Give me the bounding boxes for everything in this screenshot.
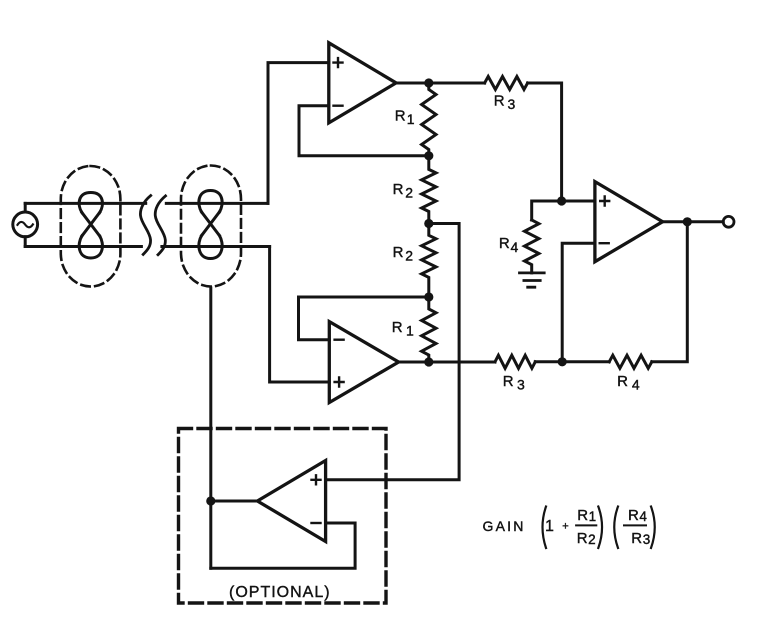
shield oval 2 (dashed) xyxy=(181,166,241,287)
svg-text:R: R xyxy=(393,244,404,261)
svg-text:R: R xyxy=(395,108,406,125)
svg-text:1: 1 xyxy=(545,518,554,535)
cable break marks xyxy=(140,196,165,255)
node R2/R2 midpoint xyxy=(424,219,433,228)
wire U2 output xyxy=(399,361,495,364)
svg-text:R: R xyxy=(503,373,514,390)
resistor R3 (top) xyxy=(485,77,528,90)
output terminal xyxy=(723,216,734,227)
twisted pair 1 xyxy=(79,193,102,259)
svg-text:4: 4 xyxy=(632,377,640,393)
svg-text:R: R xyxy=(628,507,639,524)
resistor R2 (upper) xyxy=(422,156,436,224)
node between R2 and R1 (bottom) xyxy=(424,292,433,301)
twisted pair 2 xyxy=(199,191,222,259)
shield oval 1 (dashed) xyxy=(61,166,121,287)
svg-text:4: 4 xyxy=(511,239,519,255)
svg-text:2: 2 xyxy=(588,532,596,547)
shield wire to optional amp xyxy=(209,288,212,568)
wire U4 output xyxy=(211,500,258,503)
op-amp U3 xyxy=(595,182,663,262)
svg-text:(OPTIONAL): (OPTIONAL) xyxy=(229,584,331,601)
resistor R1 (bottom) xyxy=(422,297,436,362)
svg-text:1: 1 xyxy=(407,111,415,127)
svg-text:R: R xyxy=(494,93,505,110)
label R4 bottom xyxy=(617,373,640,393)
node between R1 and R2 (top) xyxy=(424,151,433,160)
svg-text:3: 3 xyxy=(517,377,525,393)
svg-text:R: R xyxy=(631,530,642,547)
node U4 output xyxy=(206,496,215,505)
wire R4 to node xyxy=(562,360,609,363)
wire to op-amp U2 + input xyxy=(270,247,330,383)
svg-text:2: 2 xyxy=(405,248,413,264)
svg-text:3: 3 xyxy=(508,96,516,112)
resistor R1 (top) xyxy=(422,83,436,156)
svg-text:R: R xyxy=(393,181,404,198)
wire U4 feedback xyxy=(211,523,355,568)
svg-text:1: 1 xyxy=(589,509,597,524)
node U2 output xyxy=(424,357,433,366)
wire output feedback down xyxy=(652,222,688,362)
fraction bars xyxy=(576,524,646,526)
svg-text:4: 4 xyxy=(639,509,647,524)
label R3 bottom xyxy=(503,373,525,393)
wire U2 feedback xyxy=(299,297,429,340)
svg-text:GAIN: GAIN xyxy=(483,518,526,534)
ground xyxy=(520,273,545,287)
resistor R3 (bottom) xyxy=(495,355,535,368)
node output xyxy=(683,217,692,226)
svg-text:3: 3 xyxy=(643,532,651,547)
label R1 bottom xyxy=(392,319,414,339)
svg-text:2: 2 xyxy=(405,185,413,201)
wire R4 ground branch xyxy=(532,201,562,220)
label R3 top xyxy=(494,93,516,113)
svg-text:R: R xyxy=(577,530,588,547)
label R2 upper xyxy=(393,181,414,201)
resistor R4 (to ground) xyxy=(525,220,539,273)
label R4 left xyxy=(499,235,519,255)
wire to op-amp U1 + input xyxy=(268,63,329,204)
label (OPTIONAL) xyxy=(229,584,331,601)
op-amp U1 xyxy=(329,43,396,123)
wire R3 bottom to node xyxy=(535,360,562,363)
node U3 + input xyxy=(557,196,566,205)
wire U1 feedback xyxy=(299,106,429,156)
label R2 lower xyxy=(393,244,414,264)
optional box (dashed) xyxy=(179,429,387,604)
wire U1 output xyxy=(396,82,485,85)
svg-text:R: R xyxy=(577,507,588,524)
label R1 top xyxy=(395,108,415,128)
wire R2 midpoint to optional amp xyxy=(326,224,460,480)
wire top input line xyxy=(25,202,268,205)
gain formula xyxy=(483,507,651,547)
wire R3 to U3 + input xyxy=(528,83,595,201)
svg-text:R: R xyxy=(392,319,403,336)
wire U3 output xyxy=(663,220,724,223)
op-amp U2 xyxy=(329,322,398,403)
resistor R4 (feedback bottom) xyxy=(609,355,652,368)
ac source V1 xyxy=(13,203,38,246)
svg-text:R: R xyxy=(499,235,510,252)
wire U3 - input xyxy=(562,243,595,362)
node U1 output xyxy=(424,78,433,87)
op-amp U4 (guard driver) xyxy=(257,461,325,542)
svg-text:+: + xyxy=(562,521,568,533)
parentheses xyxy=(543,507,655,549)
node bottom feedback xyxy=(558,357,567,366)
svg-text:1: 1 xyxy=(406,323,414,339)
svg-text:R: R xyxy=(617,373,628,390)
wire bottom input line xyxy=(25,245,269,248)
resistor R2 (lower) xyxy=(422,224,436,298)
